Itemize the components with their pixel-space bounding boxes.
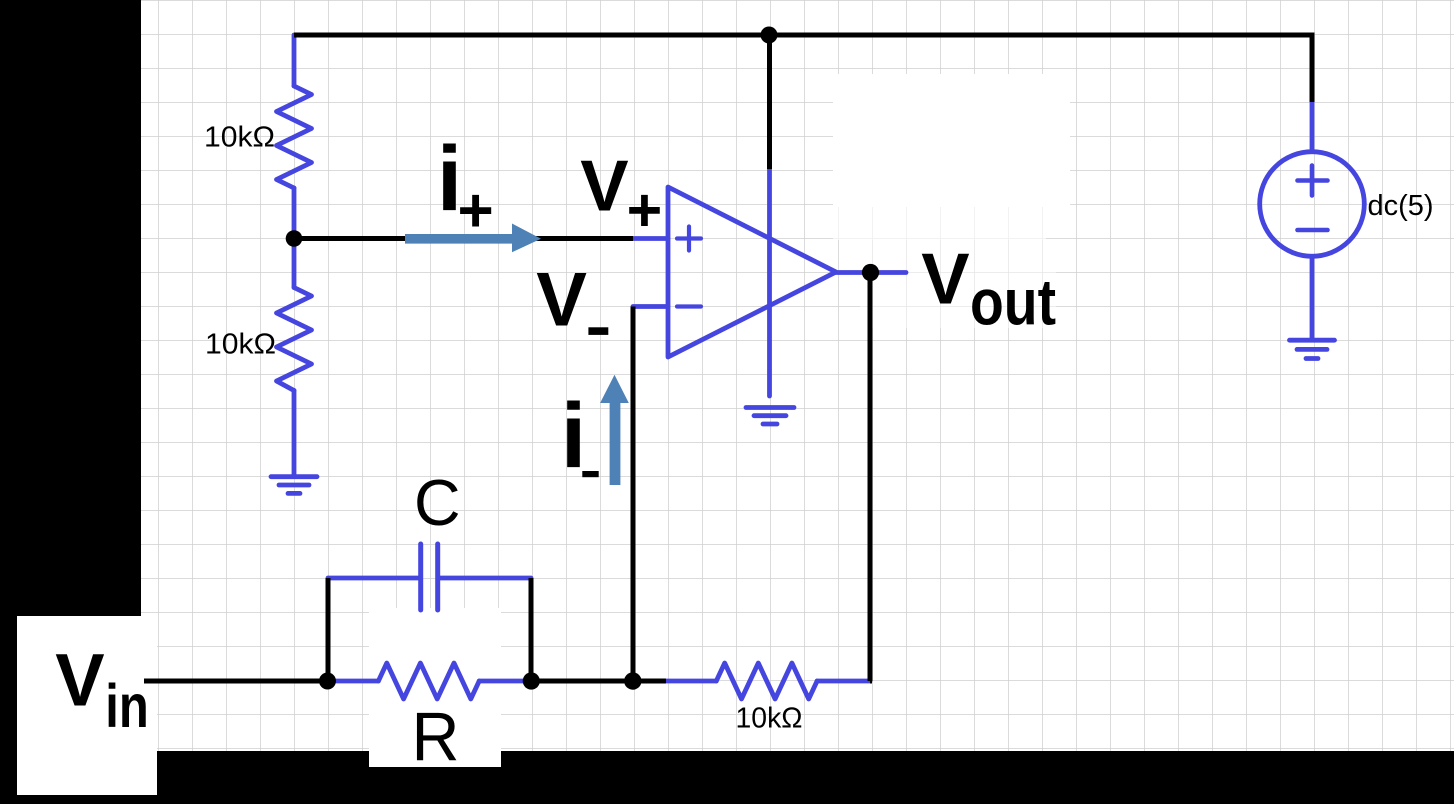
svg-text:+: +	[458, 177, 494, 246]
svg-text:dc(5): dc(5)	[1368, 190, 1434, 222]
svg-text:R: R	[412, 698, 460, 775]
svg-text:V: V	[55, 639, 104, 722]
svg-text:in: in	[105, 672, 149, 740]
svg-text:V: V	[921, 239, 969, 320]
svg-text:10kΩ: 10kΩ	[205, 328, 276, 360]
svg-text:10kΩ: 10kΩ	[736, 702, 803, 734]
svg-text:10kΩ: 10kΩ	[204, 121, 275, 153]
svg-text:V: V	[580, 146, 628, 227]
svg-text:+: +	[627, 176, 663, 244]
svg-text:C: C	[414, 467, 461, 539]
svg-text:out: out	[970, 265, 1056, 338]
svg-text:V: V	[536, 257, 587, 342]
